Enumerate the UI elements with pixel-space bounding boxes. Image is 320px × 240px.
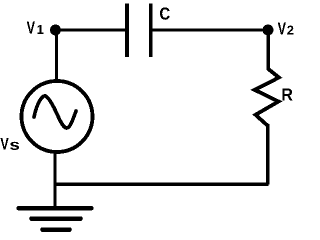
capacitor C right plate <box>149 3 153 57</box>
label R <box>282 89 292 101</box>
label C <box>160 7 170 19</box>
node V2 (junction dot) <box>263 25 274 36</box>
wire: resistor bottom down to bottom wire <box>266 124 269 185</box>
resistor R (zigzag) <box>255 62 280 126</box>
sine wave inside source <box>34 96 76 128</box>
AC source Vs (circle) <box>22 81 93 152</box>
label V2 <box>278 22 294 34</box>
ground symbol <box>19 206 92 210</box>
node V1 (junction dot) <box>50 25 61 36</box>
label Vs <box>0 138 19 150</box>
wire: source bottom down to ground junction <box>53 151 56 208</box>
wire top-left: V1 node to capacitor left plate <box>55 28 127 31</box>
bottom wire: ground junction to resistor bottom <box>54 182 269 186</box>
wire: V1 node down to source top <box>55 30 58 82</box>
label V1 <box>27 21 44 34</box>
wire top-right: capacitor right plate to V2 node <box>150 28 268 31</box>
capacitor C left plate <box>125 3 129 57</box>
wire: V2 node down to resistor top <box>267 30 270 67</box>
